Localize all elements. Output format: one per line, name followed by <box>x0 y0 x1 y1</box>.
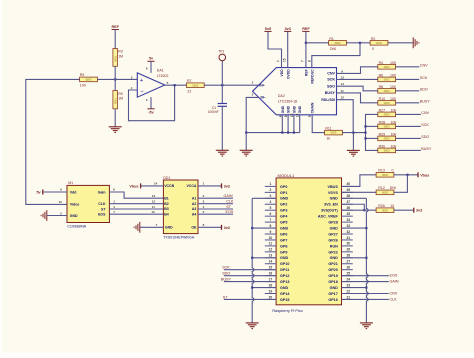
svg-text:GP26: GP26 <box>328 238 337 242</box>
svg-text:VDD: VDD <box>280 69 284 77</box>
svg-text:GP4: GP4 <box>280 215 288 219</box>
svg-text:R9: R9 <box>118 92 123 96</box>
svg-text:VSYS: VSYS <box>328 191 338 195</box>
ground <box>109 127 122 133</box>
svg-text:SCK: SCK <box>421 123 429 127</box>
power port -5v (op-amp V-) <box>147 109 154 115</box>
svg-text:GP17: GP17 <box>328 292 337 296</box>
svg-text:GND: GND <box>281 105 285 113</box>
svg-text:0603: 0603 <box>113 55 117 61</box>
ground (sideways) <box>413 37 419 48</box>
svg-text:21: 21 <box>346 295 350 299</box>
svg-text:17: 17 <box>269 277 273 281</box>
power port REF (right) <box>302 27 310 32</box>
svg-text:GND: GND <box>70 214 78 218</box>
svg-text:100: 100 <box>390 85 396 89</box>
svg-text:DD1: DD1 <box>163 176 170 180</box>
svg-text:GP9: GP9 <box>280 250 287 254</box>
resistor R12 <box>376 190 394 195</box>
svg-text:10k: 10k <box>391 132 397 136</box>
wire R7 to ADC IN+ <box>204 84 258 86</box>
resistor R26 <box>376 208 394 213</box>
svg-text:REF: REF <box>112 25 120 29</box>
wire IN- to ground bus <box>246 97 258 132</box>
svg-text:GND: GND <box>330 197 339 201</box>
svg-text:1000nF: 1000nF <box>208 110 219 114</box>
svg-text:12: 12 <box>152 200 156 204</box>
svg-text:Vdd: Vdd <box>70 190 77 194</box>
svg-text:GP5: GP5 <box>280 221 287 225</box>
svg-text:A3: A3 <box>192 207 197 211</box>
wire A4 to EOS <box>198 213 233 215</box>
svg-text:GP12: GP12 <box>280 274 289 278</box>
svg-text:0603: 0603 <box>384 137 390 141</box>
resistor R5 <box>80 77 98 82</box>
wire Vbus to VCCB pin 14 <box>141 185 164 187</box>
svg-text:CNV: CNV <box>390 292 398 296</box>
ground <box>240 150 253 156</box>
wire CLK to DD1 B2 <box>109 203 163 205</box>
svg-text:14: 14 <box>269 260 273 264</box>
wire junction to ground <box>352 133 354 151</box>
svg-text:-5v: -5v <box>148 110 154 114</box>
svg-text:REF: REF <box>302 27 310 31</box>
svg-text:BUSY: BUSY <box>421 147 432 151</box>
svg-text:13: 13 <box>152 194 156 198</box>
svg-text:13: 13 <box>269 254 273 258</box>
svg-text:3v3: 3v3 <box>416 209 422 213</box>
svg-text:30: 30 <box>346 242 350 246</box>
svg-text:B4: B4 <box>164 212 169 216</box>
svg-text:14: 14 <box>154 182 158 186</box>
wire op-amp output <box>165 84 187 86</box>
svg-text:R29: R29 <box>379 132 385 136</box>
svg-text:GP27: GP27 <box>328 232 337 236</box>
svg-text:3V3(OUT): 3V3(OUT) <box>321 209 339 213</box>
wire R8 to SDO label <box>396 90 420 92</box>
svg-text:Vbus: Vbus <box>129 184 138 188</box>
net label ST wire to GP15 <box>224 298 276 300</box>
svg-text:TXS0104EPWRGH: TXS0104EPWRGH <box>163 236 195 240</box>
svg-text:CLK: CLK <box>390 297 398 301</box>
svg-text:DNI: DNI <box>390 186 396 190</box>
resistor R3 <box>113 49 118 67</box>
wire R2 to ground <box>388 42 413 44</box>
ground <box>360 323 373 329</box>
wire R12 up to Vbus node <box>394 175 408 193</box>
wire VBUS to R13 <box>342 175 377 187</box>
svg-text:GP14: GP14 <box>280 292 290 296</box>
svg-text:GND: GND <box>280 256 289 260</box>
svg-text:GND: GND <box>280 226 289 230</box>
svg-text:0: 0 <box>392 169 394 173</box>
resistor R28 <box>378 124 396 129</box>
svg-text:100: 100 <box>390 97 396 101</box>
svg-text:10: 10 <box>390 204 394 208</box>
svg-text:REFDGC: REFDGC <box>311 69 315 84</box>
svg-text:40: 40 <box>346 182 350 186</box>
svg-text:GP7: GP7 <box>280 238 287 242</box>
wire gnd pin 18 <box>252 287 276 289</box>
svg-text:GP16: GP16 <box>328 298 337 302</box>
svg-text:BUSY: BUSY <box>221 278 232 282</box>
power port 5v (op-amp V+) <box>147 57 154 62</box>
svg-text:18: 18 <box>269 283 273 287</box>
svg-text:CNV: CNV <box>420 63 428 67</box>
svg-text:SCK: SCK <box>222 266 230 270</box>
wire feedback loop output to inverting input <box>129 85 175 121</box>
wire down to ground <box>245 133 247 151</box>
wire R10 to BUSY label <box>396 102 420 104</box>
resistor R13 <box>376 173 394 178</box>
svg-text:GND: GND <box>330 226 339 230</box>
wire R27 to CNV label <box>396 113 421 115</box>
ground <box>246 323 259 329</box>
resistor R2 <box>370 41 388 46</box>
svg-text:GP0: GP0 <box>280 185 287 189</box>
net label BUSY wire to GP13 <box>224 281 276 283</box>
svg-text:SCK: SCK <box>327 78 335 82</box>
power port 5v <box>36 190 42 195</box>
svg-text:15: 15 <box>282 58 286 62</box>
svg-text:SDO: SDO <box>222 272 230 276</box>
svg-text:4: 4 <box>278 115 282 117</box>
node TP1 junction <box>221 84 223 86</box>
svg-text:0603: 0603 <box>113 98 117 104</box>
svg-text:GP8: GP8 <box>280 244 287 248</box>
svg-text:8: 8 <box>269 224 271 228</box>
svg-text:GP19: GP19 <box>328 274 337 278</box>
svg-text:3V3_EN: 3V3_EN <box>324 203 338 207</box>
module left pins GP0-GP15 with numbers <box>265 182 291 302</box>
svg-text:100: 100 <box>80 84 86 88</box>
wire R3 to R9 <box>114 66 116 90</box>
svg-text:39: 39 <box>346 188 350 192</box>
wire BUSY from ADC pin 11 <box>337 93 378 103</box>
svg-text:ST: ST <box>226 205 231 209</box>
svg-text:Vbus: Vbus <box>420 173 429 177</box>
svg-text:0603: 0603 <box>384 101 390 105</box>
wire REF port to R3 <box>114 30 116 49</box>
net label SDO wire to GP12 <box>224 275 276 277</box>
svg-text:1M: 1M <box>118 54 123 58</box>
svg-text:Video: Video <box>70 203 79 207</box>
svg-text:22: 22 <box>346 289 350 293</box>
svg-text:−: − <box>140 89 143 95</box>
wire ADC ground bus <box>246 132 300 134</box>
power port Vbus <box>418 172 429 177</box>
svg-text:0603: 0603 <box>384 113 390 117</box>
svg-text:16: 16 <box>269 271 273 275</box>
net label GAIN wire GP18 <box>342 281 389 283</box>
svg-text:6: 6 <box>284 115 288 117</box>
resistor R1 <box>329 41 347 46</box>
ADC GND pin wires <box>281 115 283 133</box>
op-amp DA1 LT6202 <box>137 73 165 97</box>
wire R6 to SCK label <box>396 78 420 80</box>
resistor R9 <box>113 91 118 109</box>
net label EOS wire GP19 <box>342 275 389 277</box>
wire R13 to Vbus port <box>394 174 418 176</box>
power port 3v3 <box>414 208 422 213</box>
svg-text:LT6202: LT6202 <box>157 74 169 78</box>
svg-text:GP20: GP20 <box>328 268 337 272</box>
svg-text:8: 8 <box>308 60 312 62</box>
svg-text:GND: GND <box>280 286 289 290</box>
svg-text:GP6: GP6 <box>280 232 287 236</box>
svg-text:OVDD: OVDD <box>286 69 290 79</box>
svg-text:0603: 0603 <box>335 41 341 45</box>
wire REF to REF pin 7 <box>305 31 307 67</box>
wire gnd pin 33 <box>342 227 367 229</box>
svg-text:A4: A4 <box>192 212 197 216</box>
svg-text:1k: 1k <box>326 137 330 141</box>
svg-text:R8: R8 <box>379 85 384 89</box>
svg-text:R11: R11 <box>325 127 331 131</box>
svg-text:GND: GND <box>165 226 173 230</box>
svg-text:12: 12 <box>341 96 345 100</box>
svg-text:Gain: Gain <box>98 190 106 194</box>
wire video input from connector up to R5 <box>26 79 80 204</box>
test point TP1 <box>218 50 225 61</box>
wire OE pin 8 to 3v3 <box>198 226 222 228</box>
svg-text:0603: 0603 <box>384 78 390 82</box>
wire VSYS to R12 <box>342 191 377 193</box>
svg-text:DA2: DA2 <box>278 94 285 98</box>
wire Gain pin 8 to DD1 B1 <box>109 192 163 198</box>
svg-text:19: 19 <box>269 289 273 293</box>
svg-text:34: 34 <box>346 218 350 222</box>
svg-text:R27: R27 <box>379 108 385 112</box>
svg-text:IN+: IN+ <box>259 83 264 87</box>
svg-text:SDO: SDO <box>420 87 428 91</box>
svg-text:35: 35 <box>346 212 350 216</box>
svg-text:GP13: GP13 <box>280 280 289 284</box>
svg-text:10: 10 <box>58 200 62 204</box>
svg-text:7: 7 <box>301 60 305 62</box>
svg-text:R12: R12 <box>378 186 384 190</box>
svg-text:25: 25 <box>346 271 350 275</box>
svg-text:29: 29 <box>346 248 350 252</box>
svg-text:R5: R5 <box>80 73 85 77</box>
module right pins with numbers <box>318 182 353 302</box>
wire A2 to CLK <box>198 203 233 205</box>
node REF junction <box>305 42 307 44</box>
power port 5v5 <box>264 27 271 32</box>
node divider junction <box>114 78 116 80</box>
svg-text:7: 7 <box>269 218 271 222</box>
node 3v3 junction <box>363 209 365 211</box>
wire node to R2 <box>360 42 370 44</box>
svg-text:13: 13 <box>341 75 345 79</box>
svg-text:16: 16 <box>296 113 300 117</box>
power port 3v3 <box>222 183 230 188</box>
svg-text:0603: 0603 <box>384 125 390 129</box>
node R11 ground junction <box>352 132 354 134</box>
wire R1 to node <box>346 42 360 44</box>
svg-text:10: 10 <box>269 236 273 240</box>
svg-text:GND: GND <box>298 105 302 113</box>
wire 3V3(OUT) to R26 <box>342 209 377 211</box>
svg-text:GP18: GP18 <box>328 280 337 284</box>
resistor R30 <box>378 148 396 153</box>
module MODUL1 Raspberry Pi Pico <box>276 178 341 305</box>
svg-text:GND: GND <box>292 105 296 113</box>
svg-text:5v5: 5v5 <box>265 27 271 31</box>
svg-text:GND: GND <box>280 197 289 201</box>
svg-text:3: 3 <box>269 194 271 198</box>
node R1/R2 junction <box>359 42 361 44</box>
svg-text:10k: 10k <box>391 144 397 148</box>
svg-text:GP22: GP22 <box>328 250 337 254</box>
wire R30 to BUSY label <box>396 149 421 151</box>
svg-text:0603: 0603 <box>86 78 92 82</box>
svg-text:R3: R3 <box>118 49 123 53</box>
svg-text:M1: M1 <box>68 181 73 185</box>
svg-text:2: 2 <box>269 188 271 192</box>
svg-text:EOS: EOS <box>390 274 398 278</box>
svg-text:10: 10 <box>290 113 294 117</box>
svg-text:3v3: 3v3 <box>224 184 230 188</box>
svg-text:100: 100 <box>390 73 396 77</box>
wire ST to DD1 B3 <box>109 208 163 210</box>
svg-text:3v3: 3v3 <box>224 226 230 230</box>
svg-text:23: 23 <box>346 283 350 287</box>
svg-text:24: 24 <box>346 277 350 281</box>
wire R29 to SDO label <box>396 137 421 139</box>
resistor R29 <box>378 136 396 141</box>
wire EOS to DD1 B4 <box>109 213 163 215</box>
wire SCK from ADC pin 13 <box>337 78 378 80</box>
svg-text:GP3: GP3 <box>280 209 287 213</box>
svg-text:28: 28 <box>346 254 350 258</box>
svg-text:0603: 0603 <box>382 208 388 212</box>
svg-text:GAIN: GAIN <box>224 194 233 198</box>
svg-text:GND: GND <box>287 105 291 113</box>
resistor R8 <box>378 89 396 94</box>
svg-text:12: 12 <box>269 248 273 252</box>
wire ground to GND pin 7 <box>140 226 164 228</box>
svg-text:33: 33 <box>346 224 350 228</box>
svg-text:B3: B3 <box>164 207 169 211</box>
svg-text:SDO: SDO <box>421 135 429 139</box>
power port Vbus <box>129 183 140 188</box>
svg-text:BUSY: BUSY <box>420 99 431 103</box>
ADC DA2 LTC2364-18 <box>253 68 337 115</box>
svg-text:38: 38 <box>346 194 350 198</box>
wire RDL/SDI from ADC pin 12 down to R11 node <box>337 100 354 133</box>
svg-text:OE: OE <box>191 226 197 230</box>
svg-text:B2: B2 <box>164 202 169 206</box>
svg-text:SCK: SCK <box>420 76 428 80</box>
net label SCK wire to GP11 <box>224 269 276 271</box>
svg-text:0603: 0603 <box>382 173 388 177</box>
svg-text:3v3: 3v3 <box>285 27 291 31</box>
svg-text:R26: R26 <box>378 204 384 208</box>
wire gnd pin 8 <box>252 227 276 229</box>
svg-text:GP1: GP1 <box>280 191 287 195</box>
power port 3v3 <box>222 225 230 230</box>
svg-text:+: + <box>140 78 143 84</box>
svg-text:CNV: CNV <box>421 111 429 115</box>
svg-text:RDL/SDI: RDL/SDI <box>321 98 335 102</box>
wire 5v to Vdd pin 9 <box>43 191 67 193</box>
svg-text:BUSY: BUSY <box>325 91 336 95</box>
ground <box>216 150 229 156</box>
svg-text:VCCB: VCCB <box>164 184 174 188</box>
wire SDO from ADC pin 14 <box>337 86 378 91</box>
svg-text:GP11: GP11 <box>280 268 289 272</box>
node Vbus junction <box>406 174 408 176</box>
svg-text:A2: A2 <box>192 202 197 206</box>
svg-text:4: 4 <box>269 200 271 204</box>
svg-text:R30: R30 <box>379 144 385 148</box>
resistor R6 <box>378 77 396 82</box>
svg-text:10k: 10k <box>391 108 397 112</box>
wire pin2 to -5v <box>150 97 152 109</box>
svg-text:0603: 0603 <box>384 65 390 69</box>
svg-text:20: 20 <box>269 295 273 299</box>
wire R5 to op-amp non-inverting input <box>97 78 137 80</box>
svg-text:1M: 1M <box>118 97 123 101</box>
IC DD1 TXS0104EPWRGH <box>163 180 198 234</box>
resistor R27 <box>378 112 396 117</box>
svg-text:GP10: GP10 <box>280 262 289 266</box>
wire R4 to CNV label <box>396 66 420 68</box>
net label CLK wire GP16 <box>342 298 389 300</box>
wire R28 to SCK label <box>396 125 421 127</box>
wire TP1 to node <box>221 61 223 85</box>
svg-text:27: 27 <box>346 260 350 264</box>
wire A1 to GAIN <box>198 197 233 199</box>
svg-text:10k: 10k <box>391 120 397 124</box>
node output junction <box>174 84 176 86</box>
svg-text:R6: R6 <box>379 73 384 77</box>
svg-text:RUN: RUN <box>330 244 338 248</box>
svg-text:REF: REF <box>305 69 309 76</box>
resistor R10 <box>378 101 396 106</box>
svg-text:C10988MA: C10988MA <box>67 224 86 228</box>
svg-text:0603: 0603 <box>382 190 388 194</box>
ground (left) <box>41 210 47 221</box>
svg-text:R7: R7 <box>187 79 192 83</box>
svg-text:0603: 0603 <box>376 41 382 45</box>
svg-text:R13: R13 <box>378 169 384 173</box>
svg-text:VCCA: VCCA <box>186 184 196 188</box>
svg-text:ADC_VREF: ADC_VREF <box>318 215 339 219</box>
svg-text:11: 11 <box>152 205 156 209</box>
ground <box>347 150 360 156</box>
svg-text:0603: 0603 <box>331 131 337 135</box>
wire 5v5 to VDD pin 1 <box>268 31 282 67</box>
svg-text:LTC2364-18: LTC2364-18 <box>278 99 297 103</box>
wire REF node to R1 <box>306 42 329 44</box>
wire REFDGC pin 8 to node <box>312 43 360 68</box>
svg-text:GP21: GP21 <box>328 262 337 266</box>
svg-text:R1: R1 <box>329 37 334 41</box>
svg-text:32: 32 <box>346 230 350 234</box>
wire 3V3_EN jog <box>342 204 365 210</box>
net label CNV wire GP17 <box>342 293 389 295</box>
svg-text:R2: R2 <box>371 37 376 41</box>
svg-text:5: 5 <box>308 115 312 117</box>
wire R9 to ground <box>114 109 116 127</box>
resistor R11 <box>325 130 343 135</box>
svg-text:37: 37 <box>346 200 350 204</box>
svg-text:CHAIN: CHAIN <box>311 102 315 113</box>
svg-text:CLK: CLK <box>98 202 106 206</box>
svg-text:6: 6 <box>269 212 271 216</box>
